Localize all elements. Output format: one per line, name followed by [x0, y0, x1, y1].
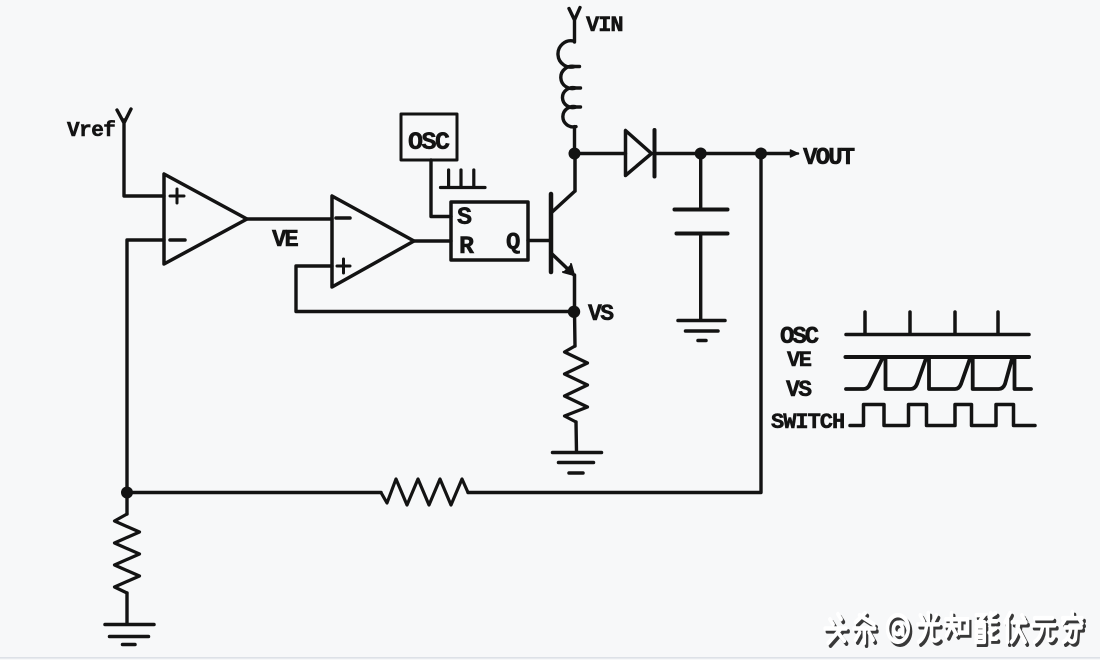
svg-text:Q: Q — [506, 230, 520, 257]
svg-text:R: R — [459, 232, 474, 261]
svg-text:VE: VE — [272, 227, 298, 254]
svg-text:Vref: Vref — [67, 120, 115, 143]
svg-text:VE: VE — [787, 348, 812, 373]
svg-text:OSC: OSC — [780, 324, 819, 351]
svg-text:S: S — [457, 203, 472, 232]
svg-text:VOUT: VOUT — [803, 145, 855, 172]
svg-text:SWITCH: SWITCH — [771, 410, 844, 435]
svg-text:VIN: VIN — [586, 13, 623, 38]
svg-text:VS: VS — [588, 301, 614, 327]
svg-text:VS: VS — [786, 377, 812, 403]
svg-text:OSC: OSC — [408, 128, 450, 157]
